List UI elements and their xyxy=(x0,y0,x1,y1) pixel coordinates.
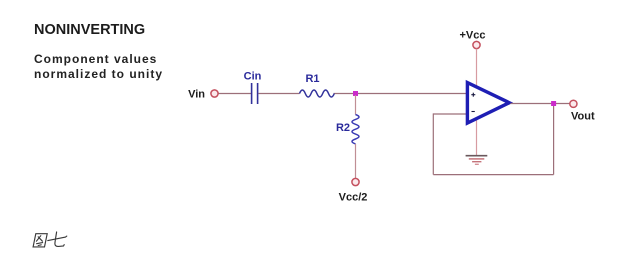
wire Cin to R1 xyxy=(259,93,300,95)
wire +Vcc supply down through op-amp to ground xyxy=(476,49,478,155)
wire Vin to Cin xyxy=(218,93,251,95)
wire node A to R2 xyxy=(355,95,357,115)
terminal Vin xyxy=(188,89,218,101)
wire R2 to Vcc/2 terminal xyxy=(355,144,357,179)
svg-text:R1: R1 xyxy=(305,73,319,85)
svg-text:+Vcc: +Vcc xyxy=(460,30,486,42)
terminal Vcc/2 xyxy=(339,178,368,203)
figure caption FIG7 xyxy=(33,232,67,247)
svg-text:Vout: Vout xyxy=(571,111,595,123)
ground xyxy=(466,156,488,165)
wire feedback bottom horizontal xyxy=(433,174,553,176)
node B output junction xyxy=(551,101,556,106)
node A junction of R1 R2 and op-amp wire xyxy=(353,91,358,96)
op-amp U1 xyxy=(467,83,509,123)
resistor R2 xyxy=(336,115,359,144)
wire inverting input xyxy=(433,113,467,115)
svg-text:normalized to unity: normalized to unity xyxy=(34,67,163,81)
wire feedback right vertical to output node xyxy=(553,104,555,175)
svg-text:Vin: Vin xyxy=(188,89,205,101)
svg-text:Cin: Cin xyxy=(244,71,262,83)
capacitor Cin xyxy=(244,71,262,105)
svg-text:Vcc/2: Vcc/2 xyxy=(339,192,368,204)
svg-text:NONINVERTING: NONINVERTING xyxy=(34,22,145,38)
resistor R1 xyxy=(300,73,335,97)
svg-text:R2: R2 xyxy=(336,122,350,134)
terminal Vout xyxy=(570,100,595,122)
wire op-amp output xyxy=(511,103,570,105)
wire R1 to op-amp noninverting input xyxy=(334,93,468,95)
terminal +Vcc xyxy=(460,30,486,49)
wire feedback left vertical xyxy=(432,113,434,174)
svg-text:Component values: Component values xyxy=(34,52,157,66)
